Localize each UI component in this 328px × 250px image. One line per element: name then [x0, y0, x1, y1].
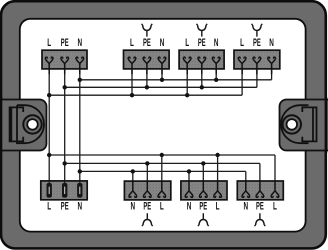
wire X3-PE drop — [201, 63, 203, 87]
svg-text:L: L — [47, 200, 51, 212]
junction X6-PE / PE bottom bus — [145, 161, 149, 165]
wire X2-L drop — [131, 63, 133, 95]
enclosure inner cavity — [20, 19, 306, 232]
terminal block X6 (bottom row 2) — [124, 180, 170, 200]
lamp outlet symbol above X4 — [252, 24, 263, 37]
junction X7-PE / PE bottom bus — [201, 161, 205, 165]
junction X6-L / L bottom bus — [160, 153, 164, 157]
junction X1-PE / PE bus — [62, 85, 66, 89]
junction X7-N / N bottom bus — [187, 169, 191, 173]
wire X4-PE drop — [256, 63, 258, 87]
right lug keyhole bracket — [302, 107, 316, 141]
wire X2-PE drop — [146, 63, 148, 87]
junction X3-N / N bus — [214, 78, 218, 82]
bus L bottom — [49, 154, 275, 156]
junction X7-L / L bottom bus — [215, 153, 219, 157]
svg-text:N: N — [78, 37, 83, 49]
svg-text:N: N — [131, 200, 136, 212]
right lug screw ring — [283, 115, 301, 133]
wire X6-N riser — [132, 171, 134, 187]
wire X6-PE riser — [146, 163, 148, 187]
wire X3-L drop — [186, 63, 188, 95]
svg-text:PE: PE — [143, 37, 151, 49]
wire X3-N drop — [215, 63, 217, 80]
svg-text:PE: PE — [198, 37, 206, 49]
junction X2-L / L bus — [130, 93, 134, 97]
lamp outlet symbol above X2 — [142, 24, 153, 37]
bus L top — [49, 94, 242, 96]
junction feed-N / N bottom bus — [78, 169, 82, 173]
svg-text:PE: PE — [61, 200, 69, 212]
svg-text:PE: PE — [143, 200, 151, 212]
right mounting lug — [280, 100, 328, 151]
wire X2-N drop — [161, 63, 163, 80]
bus N top — [80, 79, 272, 81]
terminal block X8 (bottom row 4) — [237, 180, 283, 200]
svg-text:L: L — [47, 37, 51, 49]
svg-text:PE: PE — [256, 200, 264, 212]
svg-text:N: N — [160, 37, 165, 49]
lamp outlet symbol below X6 — [142, 213, 153, 226]
lamp outlet symbol below X7 — [198, 213, 209, 226]
wire X6-L riser — [161, 155, 163, 187]
wire X7-N riser — [188, 171, 190, 187]
bus N bottom — [80, 170, 246, 172]
junction X1-N / N bus — [78, 78, 82, 82]
bus PE top — [65, 86, 257, 88]
wire N feed (X1-N to input N) — [79, 63, 81, 183]
wire X7-PE riser — [202, 163, 204, 187]
wire X8-N riser — [245, 171, 247, 187]
labels X7 "N PE L" — [187, 200, 220, 212]
terminal block X3 (top row 3) — [179, 50, 224, 74]
junction feed-PE / PE bottom bus — [62, 161, 66, 165]
labels X2 "L PE N" — [130, 37, 164, 49]
junction X2-PE / PE bus — [145, 85, 149, 89]
junction X3-L / L bus — [185, 93, 189, 97]
svg-text:N: N — [78, 200, 83, 212]
wire X4-N drop — [271, 63, 273, 80]
svg-text:N: N — [244, 200, 249, 212]
wire X4-L drop — [241, 63, 243, 95]
svg-text:L: L — [273, 200, 277, 212]
labels X8 "N PE L" — [244, 200, 278, 212]
svg-text:PE: PE — [253, 37, 261, 49]
terminal block X7 (bottom row 3) — [181, 180, 227, 200]
right lug screw hole — [287, 119, 298, 130]
svg-text:L: L — [160, 200, 164, 212]
left lug screw hole — [27, 119, 38, 130]
junction X1-L / L bus — [47, 93, 51, 97]
left lug keyhole bracket — [10, 107, 24, 141]
terminal block X2 (top row 2) — [124, 50, 170, 74]
terminal block X4 (top row 4) — [234, 50, 280, 74]
wire PE feed (X1-PE to input PE) — [64, 63, 66, 183]
labels X5 "L PE N" — [47, 200, 82, 212]
junction X2-N / N bus — [160, 78, 164, 82]
svg-text:PE: PE — [61, 37, 69, 49]
svg-text:L: L — [185, 37, 189, 49]
bus PE bottom — [65, 162, 260, 164]
wire X8-L riser — [274, 155, 276, 187]
terminal block X1 (top row 1) — [42, 50, 87, 74]
junction X6-N / N bottom bus — [131, 169, 135, 173]
left lug screw ring — [23, 115, 41, 133]
wire L feed (X1-L to input L) — [48, 63, 50, 183]
junction X3-PE / PE bus — [200, 85, 204, 89]
svg-text:PE: PE — [199, 200, 207, 212]
labels X1 "L PE N" — [47, 37, 82, 49]
labels X6 "N PE L" — [131, 200, 164, 212]
lamp outlet symbol above X3 — [196, 24, 207, 37]
labels X3 "L PE N" — [185, 37, 218, 49]
svg-text:L: L — [130, 37, 134, 49]
svg-text:N: N — [214, 37, 219, 49]
svg-text:N: N — [187, 200, 192, 212]
outer wall edge over left lug — [0, 97, 2, 153]
right lug keyhole pocket — [281, 105, 309, 143]
svg-text:L: L — [240, 37, 244, 49]
left mounting lug — [0, 100, 47, 151]
wire X8-PE riser — [259, 163, 261, 187]
left lug keyhole pocket — [17, 105, 44, 143]
wire X7-L riser — [217, 155, 219, 187]
lamp outlet symbol below X8 — [255, 213, 266, 226]
supply connector X5 (bottom input) — [41, 181, 87, 200]
svg-text:N: N — [269, 37, 274, 49]
junction feed-L / L bottom bus — [47, 153, 51, 157]
outer wall edge over right lug — [325, 97, 328, 153]
svg-text:L: L — [216, 200, 220, 212]
labels X4 "L PE N" — [240, 37, 274, 49]
